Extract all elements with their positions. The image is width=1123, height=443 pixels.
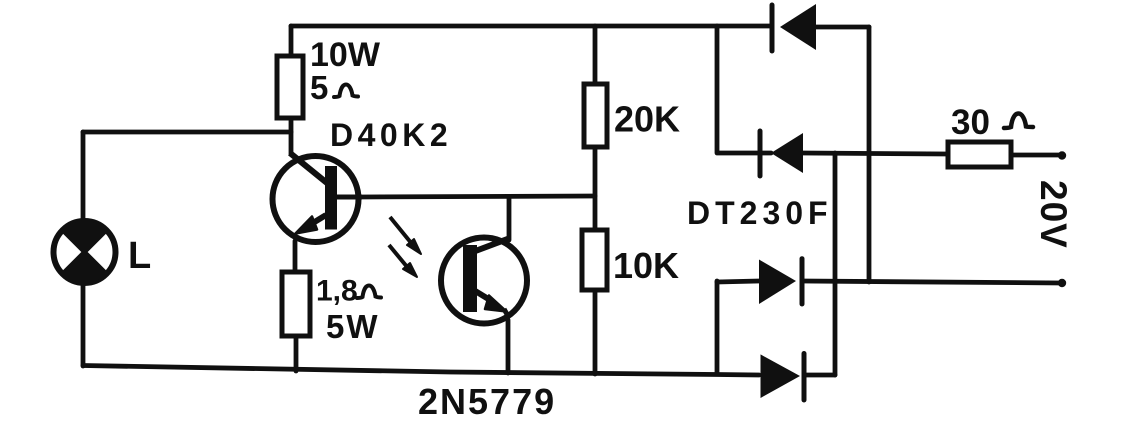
terminal top 20V [1058, 151, 1066, 159]
wire lamp bottom vertical [81, 283, 86, 366]
wire D3 anode branch [717, 281, 759, 282]
svg-text:2N5779: 2N5779 [418, 381, 556, 422]
wire Q2 emitter down [506, 320, 511, 373]
wire lamp top horizontal [83, 130, 291, 135]
wire Q2 collector up [507, 197, 512, 240]
resistor R5 30 ohm [948, 142, 1011, 167]
light arrow 2 [389, 245, 417, 277]
diode D3 [759, 259, 802, 304]
diode D1 [772, 4, 816, 51]
wire lamp top vertical [81, 132, 86, 221]
diode D4 [761, 354, 805, 401]
svg-text:D40K2: D40K2 [330, 117, 452, 153]
svg-text:L: L [128, 235, 151, 277]
wire R2 bottom stub [294, 336, 299, 371]
svg-text:5: 5 [310, 69, 328, 106]
svg-text:10K: 10K [613, 245, 679, 286]
wire 20K bottom to 10K top [593, 147, 598, 230]
transistor Q1 D40K2 [273, 153, 363, 242]
wire Q1 base to divider node [360, 196, 595, 197]
wire D2 cathode branch from top bus [717, 26, 757, 153]
svg-text:30: 30 [951, 103, 990, 142]
resistor R1 10W 5ohm [277, 56, 303, 118]
lamp L [54, 221, 116, 283]
light arrow 1 [390, 217, 421, 254]
transistor Q2 2N5779 phototransistor [441, 238, 527, 324]
svg-text:20K: 20K [614, 99, 680, 140]
svg-text:20V: 20V [1033, 180, 1074, 249]
omega glyph for 30 ohm [1004, 114, 1033, 129]
diode D2 [760, 131, 803, 176]
wire D2 bar to apex [760, 151, 771, 156]
svg-text:5W: 5W [326, 308, 380, 345]
wire right vertical D1 anode down to bottom AC node [867, 27, 872, 282]
svg-text:DT230F: DT230F [687, 195, 833, 231]
wire 30 ohm to top terminal [1011, 153, 1062, 158]
wire D3-D4 anode vertical [715, 281, 720, 374]
resistor R4 10K [582, 230, 607, 290]
wire Q1 emitter to R2 [293, 241, 298, 272]
omega glyph for 5 ohm [334, 85, 358, 98]
wire D3 cathode to bottom terminal [802, 281, 1062, 283]
wire R1 top stub [289, 26, 294, 56]
terminal bottom 20V [1058, 279, 1066, 287]
wire R1 bottom to Q1 collector [289, 118, 294, 154]
wire 20K top stub [593, 26, 598, 84]
resistor R3 20K [584, 84, 607, 147]
wire D4 cathode to AC1 vertical [804, 373, 835, 378]
wire D2 anode to 30 ohm resistor [803, 153, 948, 154]
resistor R2 1,8ohm 5W [282, 272, 310, 336]
wire 10K bottom stub [593, 290, 598, 374]
omega glyph for 1,8 ohm [357, 286, 381, 299]
wire top bus from R1 top to D1 cathode [291, 24, 770, 29]
wire D1 anode to right vertical [816, 25, 869, 30]
wire AC1 vertical D4 cathode up to D2 anode [833, 153, 838, 375]
svg-text:1,8: 1,8 [316, 275, 358, 308]
wire bottom bus [83, 366, 759, 376]
